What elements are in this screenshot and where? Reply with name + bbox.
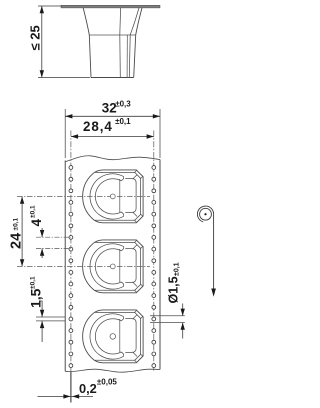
left hole column center line	[70, 131, 72, 373]
tape right edge	[159, 160, 161, 370]
pocket 3 center mark	[110, 334, 116, 340]
tape left edge	[64, 161, 66, 372]
svg-text:±0,3: ±0,3	[115, 99, 131, 108]
dimension 4 hole line bottom	[36, 248, 71, 250]
dimension le25 extension bottom	[38, 77, 90, 79]
svg-text:Ø1,5: Ø1,5	[167, 276, 181, 303]
unwind spiral inner circle	[200, 208, 212, 220]
pocket 3 corner facet edges	[134, 310, 143, 363]
dimension 1,5 arrow bottom	[41, 321, 43, 342]
dimension dia1,5 tangent top	[150, 315, 185, 317]
cap inner contour vertical	[119, 8, 122, 78]
dimension 4 arrow top	[41, 228, 43, 237]
pocket 2 center line	[17, 265, 150, 267]
pocket 3 cavity block bottom edges	[125, 319, 136, 353]
pocket 3 block left edge	[119, 319, 121, 352]
svg-text:4: 4	[29, 219, 44, 227]
tape bottom break line	[65, 369, 160, 372]
pocket 1 cavity corner draft lines	[133, 175, 138, 217]
dimension dia1,5 arrow top	[182, 304, 184, 316]
dimension le25 extension top	[38, 5, 62, 7]
pocket 1 horseshoe ring	[90, 174, 124, 219]
pocket 2 block left edge	[119, 249, 121, 282]
unwind spiral outer arc	[197, 206, 213, 222]
svg-text:≤ 25: ≤ 25	[28, 25, 43, 50]
svg-text:28,4: 28,4	[83, 119, 113, 134]
cap bottom edge	[91, 77, 134, 79]
dimension 32 extension right	[159, 109, 161, 158]
pocket 1 outer outline	[83, 170, 143, 223]
pocket 2 horseshoe ring	[90, 244, 124, 289]
svg-text:±0,05: ±0,05	[97, 378, 118, 387]
dimension 1,5 arrow top leader	[39, 301, 42, 317]
svg-text:±0,1: ±0,1	[13, 218, 20, 231]
svg-text:±0,1: ±0,1	[30, 276, 37, 289]
pocket 1 rim inner edge	[95, 172, 141, 220]
left column line below tape (0,2 feature)	[70, 372, 72, 403]
pocket 2 cavity block bottom edges	[125, 249, 136, 283]
sprocket holes right column	[152, 166, 156, 170]
pocket 1 corner facet edges	[134, 170, 143, 223]
svg-text:0,2: 0,2	[79, 381, 97, 396]
cap inner contour right double	[126, 35, 128, 78]
cap inner contour slanted	[129, 8, 139, 78]
dimension dia1,5 arrow bottom	[182, 323, 184, 339]
cap left outer edge	[83, 8, 91, 78]
pocket 2 corner facet edges	[134, 240, 143, 293]
cap right outer edge	[134, 8, 142, 78]
dimension 32 line	[65, 115, 160, 117]
svg-text:±0,1: ±0,1	[115, 117, 131, 126]
dimension 4 arrow bottom	[41, 249, 43, 259]
dimension 32 extension left	[64, 109, 66, 158]
svg-text:±0,1: ±0,1	[174, 262, 181, 276]
unwind direction line	[213, 214, 215, 289]
dimension 4 hole line top	[36, 236, 71, 238]
dimension dia1,5 tangent bottom	[150, 322, 185, 324]
pocket 2 center mark	[110, 264, 115, 269]
dimension 1,5 line top	[36, 316, 65, 318]
sprocket holes left column	[69, 166, 73, 170]
dimension 28,4 line	[71, 136, 154, 138]
right hole column center line	[153, 131, 155, 371]
pocket 2 outer outline	[83, 240, 143, 293]
pocket 3 outer outline	[83, 310, 143, 363]
tape top break line	[65, 156, 160, 162]
pocket 1 center line	[17, 195, 150, 197]
pocket 3 horseshoe ring	[90, 314, 124, 359]
dimension 0,2 line	[38, 395, 94, 397]
svg-text:24: 24	[8, 233, 24, 249]
pocket 3 cavity corner draft lines	[133, 315, 138, 357]
dimension 24 line	[21, 197, 23, 267]
pocket 2 cavity corner draft lines	[133, 245, 138, 287]
pocket 3 rim inner edge	[95, 312, 141, 360]
pocket 1 block left edge	[119, 179, 121, 212]
dimension 1,5 line bottom	[36, 320, 65, 322]
svg-text:1,5: 1,5	[28, 288, 44, 308]
pocket 1 cavity block bottom edges	[125, 179, 136, 213]
cap flange top bar	[61, 5, 160, 8]
svg-text:±0,1: ±0,1	[30, 205, 37, 218]
pocket 1 center mark	[110, 194, 115, 199]
unwind spiral center dot	[204, 213, 206, 215]
dimension le25 line	[41, 6, 43, 78]
cap step line	[89, 34, 135, 36]
pocket 2 rim inner edge	[95, 242, 141, 290]
